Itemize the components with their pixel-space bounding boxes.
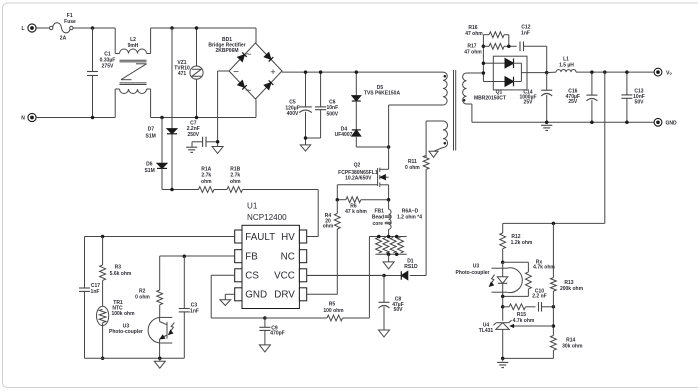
node C14 bottom [545,121,549,125]
wire aux top to R11 [426,121,443,157]
svg-text:TVS P6KE150A: TVS P6KE150A [364,91,401,97]
svg-text:100 ohm: 100 ohm [323,308,344,314]
node shunt top c [395,235,399,239]
node C1 top [91,26,95,30]
wire HV startup [243,190,319,237]
resistor R6 47k [337,197,388,215]
fuse F1 2A [50,13,77,42]
terminal Vo output [654,68,672,76]
varistor VZ1 TVR10471 [174,28,203,118]
diode D7 S1M [146,28,177,190]
svg-text:VCC: VCC [274,271,295,282]
node source R6 [387,198,391,202]
node VZ1 bottom [195,116,199,120]
svg-text:2.7k: 2.7k [201,173,211,179]
node C1 bottom [91,116,95,120]
node TL431 ref [552,324,556,328]
node C13 top [625,70,629,74]
svg-text:1nF: 1nF [521,30,530,36]
svg-text:1nF: 1nF [91,289,100,295]
node shunt top b [387,235,391,239]
ground (chassis arrow) bridge minus [212,147,223,154]
svg-text:Q2: Q2 [354,162,361,168]
svg-text:10.2A/650V: 10.2A/650V [345,176,372,182]
svg-text:Photo-coupler: Photo-coupler [109,329,143,335]
svg-text:S1M: S1M [144,168,154,174]
svg-text:47 ohm: 47 ohm [464,49,482,55]
svg-text:MBR20150CT: MBR20150CT [474,95,506,101]
svg-text:NCP12400: NCP12400 [247,213,287,222]
svg-text:400V: 400V [287,111,299,117]
svg-text:0 ohm: 0 ohm [135,295,150,301]
node D7 bottom [170,188,174,192]
svg-text:4.7k ohm: 4.7k ohm [533,265,555,271]
svg-text:R6A~D: R6A~D [402,209,419,215]
primary phase dot [444,75,447,78]
common-mode choke L2 9mH [115,28,172,118]
svg-text:200k ohm: 200k ohm [560,286,584,292]
wire bridge plus rail [282,71,443,72]
node clamp to drain [387,145,391,149]
wire LED cathode [502,296,504,320]
node VCC C8 [382,274,386,278]
wire L line to bridge [172,28,256,43]
wire CS sense [368,237,370,318]
wire secondary to Q1 [467,35,494,82]
resistor R15 4.7k [503,304,536,324]
node R13 top [552,222,556,226]
svg-text:RS1D: RS1D [404,264,418,270]
MOSFET Q2 FCPF380N65FL1 [337,162,388,199]
ground (chassis arrow) bulk [300,145,310,151]
svg-text:TL431: TL431 [479,328,494,334]
svg-text:−: − [233,67,239,78]
svg-text:1.2 ohm *4: 1.2 ohm *4 [397,215,422,221]
svg-text:25V: 25V [568,99,578,105]
svg-text:500V: 500V [326,112,338,118]
resistor R11 0 ohm [405,155,429,275]
svg-text:FB1: FB1 [374,209,384,215]
resistor R1B 2.7k [227,166,243,192]
node LED top [501,261,505,265]
capacitor C1 0.33uF X2 [87,28,115,118]
diode D4 UF4007 [335,127,389,148]
svg-text:R1B: R1B [230,166,240,172]
svg-text:U1: U1 [247,201,258,210]
bridge rectifier BD1 2KBP06M [208,37,282,99]
aux phase dot [444,142,447,145]
node TL431 anode [501,357,505,361]
wire L line to choke [73,27,115,29]
node C10 right [552,305,556,309]
svg-text:100k ohm: 100k ohm [111,311,135,317]
svg-text:R1A: R1A [201,166,211,172]
svg-text:30k ohm: 30k ohm [562,344,583,350]
photo-coupler U3 transistor side [109,317,174,358]
svg-text:~: ~ [245,49,251,61]
capacitor C9 470pF [259,318,284,345]
svg-text:9mH: 9mH [128,43,139,49]
svg-text:1nF: 1nF [190,308,199,314]
node C7 right [216,140,220,144]
wire FAULT rail [85,237,235,289]
wire R1A to R1B [214,189,227,191]
svg-text:2A: 2A [60,36,67,42]
transformer primary winding [443,72,447,105]
terminal L (AC line input) [21,24,49,32]
svg-text:10nF: 10nF [326,105,338,111]
wire VCC [306,274,384,276]
node C16 top [590,70,594,74]
node LED bottom [501,295,505,299]
capacitor C17 1nF [79,283,100,358]
node R16 R17 right [507,45,511,49]
node R3 top [101,235,105,239]
capacitor C3 1nF [179,256,199,358]
capacitor C16 470uF [566,72,598,122]
capacitor C5 120uF bulk [285,72,311,138]
shunt resistors R6A-D 1.2 ohm x4 [369,209,422,255]
transformer aux winding [443,121,448,148]
svg-text:47 ohm: 47 ohm [465,31,483,37]
node out C14 [545,71,549,75]
svg-text:4.7k ohm: 4.7k ohm [513,318,535,324]
svg-text:ohm: ohm [230,179,241,185]
node C16 bottom [590,121,594,125]
transformer secondary winding [463,73,467,104]
ground (chassis arrow) opto emitter [154,358,165,368]
svg-text:2KBP06M: 2KBP06M [215,48,238,54]
wire FB rail [160,256,235,290]
resistor R3 5.6k [100,237,132,307]
ground (chassis arrow) aux [429,151,438,157]
secondary phase dot [463,99,466,102]
svg-text:Bead: Bead [372,215,384,221]
node C6 top [319,70,323,74]
ferrite bead FB1 [372,200,392,237]
ground (earth) output [541,125,552,130]
diode D1 RS1D [306,258,426,279]
svg-text:1.2k ohm: 1.2k ohm [511,240,533,246]
resistor R4 20 ohm [323,200,340,295]
svg-text:U3: U3 [473,264,480,270]
svg-text:250V: 250V [187,132,199,138]
ground (earth) C7 [186,147,197,152]
inductor L1 1.5uH [556,57,576,73]
svg-text:UF4007: UF4007 [335,132,353,138]
svg-text:core: core [373,221,384,227]
svg-text:2.7k: 2.7k [230,173,240,179]
wire CS to R5 [265,317,327,319]
TVS diode D5 P6KE150A [352,72,401,130]
node D6 top [160,116,164,120]
resistor R13 200k [551,223,584,335]
wire CS pin [211,275,265,318]
wire secondary return [467,104,655,122]
node D7 top [170,26,174,30]
wire Vplus rail [576,71,654,73]
svg-text:L: L [21,26,24,32]
svg-text:R11: R11 [408,159,417,165]
capacitor C8 47uF [379,276,404,331]
ground (chassis arrow) C9 [259,345,270,352]
transformer core [454,70,456,151]
svg-text:Fuse: Fuse [64,19,76,25]
svg-text:2.2 nF: 2.2 nF [532,294,546,300]
resistor R17 47 ohm [464,43,516,55]
svg-text:D6: D6 [146,161,153,167]
svg-text:50V: 50V [394,307,404,313]
capacitor C13 10nF [621,72,644,122]
svg-text:FAULT: FAULT [245,232,275,243]
node VZ1 top [195,26,199,30]
resistor Rx 4.7k [503,259,556,296]
wire N line to bridge [162,100,256,118]
svg-text:R5: R5 [329,302,336,308]
resistor R14 30k [503,336,583,359]
resistor R12 1.2k [500,223,533,262]
wire feedback tap [503,72,605,223]
svg-text:471: 471 [178,71,187,77]
svg-text:CS: CS [245,271,259,282]
ground (chassis arrow) C8 [379,330,390,337]
node emitter ground [158,356,162,360]
svg-text:47 k ohm: 47 k ohm [345,209,367,215]
wire bridge minus [218,71,229,147]
node shunt top a [377,235,381,239]
ground (earth) TL431 [497,358,508,367]
svg-text:DRV: DRV [274,290,295,301]
node sec in [482,71,486,75]
svg-text:25V: 25V [524,100,534,106]
svg-text:470pF: 470pF [270,331,284,337]
resistor R5 100 ohm [323,302,369,321]
svg-text:HV: HV [281,232,295,243]
rectifier Q1 MBR20150CT [474,56,547,101]
IC U1 NCP12400 controller [235,201,307,308]
svg-text:50V: 50V [635,100,645,106]
svg-text:~: ~ [245,85,251,97]
capacitor C10 2.2nF [532,288,553,311]
node C5 top [304,70,308,74]
node shunt bot b [395,252,399,256]
svg-text:1.5 µH: 1.5 µH [559,62,574,68]
terminal GND output [654,118,677,126]
resistor R16 47 ohm [465,25,509,46]
node D5 top [355,70,359,74]
svg-text:ohm: ohm [201,179,212,185]
wire shunt to ground [388,254,390,262]
node R15 tap [501,305,505,309]
terminal N (AC neutral input) [21,113,115,121]
node gate R4 R6 [336,198,340,202]
ground (chassis arrow) shunt [383,262,394,269]
svg-text:275V: 275V [102,64,114,70]
svg-text:N: N [21,116,25,122]
thermistor TR1 NTC 100k [97,300,136,358]
resistor R1A 2.7k [199,166,215,192]
svg-text:GND: GND [665,120,677,126]
resistor R2 0 ohm [135,289,162,318]
svg-text:+: + [270,67,275,77]
capacitor C12 1nF [520,25,547,73]
svg-text:FB: FB [245,252,258,263]
svg-text:R3: R3 [115,265,122,271]
svg-text:S1M: S1M [146,133,156,139]
svg-text:ohm: ohm [323,224,334,230]
svg-text:Photo-coupler: Photo-coupler [456,270,490,276]
wire aux bottom [434,148,443,152]
photo-coupler U3 LED side [456,262,523,296]
svg-text:Vo: Vo [666,71,673,77]
wire C5 C6 join [306,138,321,145]
node FB tap [603,70,607,74]
node ground rail left [101,356,105,360]
node shunt bot a [387,252,391,256]
wire left ground rail [85,357,185,359]
svg-text:0 ohm: 0 ohm [405,165,420,171]
svg-text:GND: GND [245,290,267,301]
shunt regulator U4 TL431 [479,320,554,358]
ground (chassis arrow) U1 GND [220,294,235,305]
node sec R17 [482,45,486,49]
node C9 [263,316,267,320]
node C3 top [183,254,187,258]
svg-text:D7: D7 [148,126,155,132]
svg-text:NC: NC [281,252,295,263]
wire out to L1 [547,71,556,74]
svg-text:5.6k ohm: 5.6k ohm [110,271,132,277]
node C5 C6 join [304,136,308,140]
capacitor C7 2.2nF Y1 [187,120,218,147]
capacitor C14 1000uF [519,73,552,123]
node C13 bottom [625,121,629,125]
wire primary bottom to drain [389,105,443,169]
node sec anode a [482,61,486,64]
diode D6 S1M [144,118,198,190]
wire DRV to R4 [307,293,338,295]
capacitor C6 10nF [315,72,339,138]
